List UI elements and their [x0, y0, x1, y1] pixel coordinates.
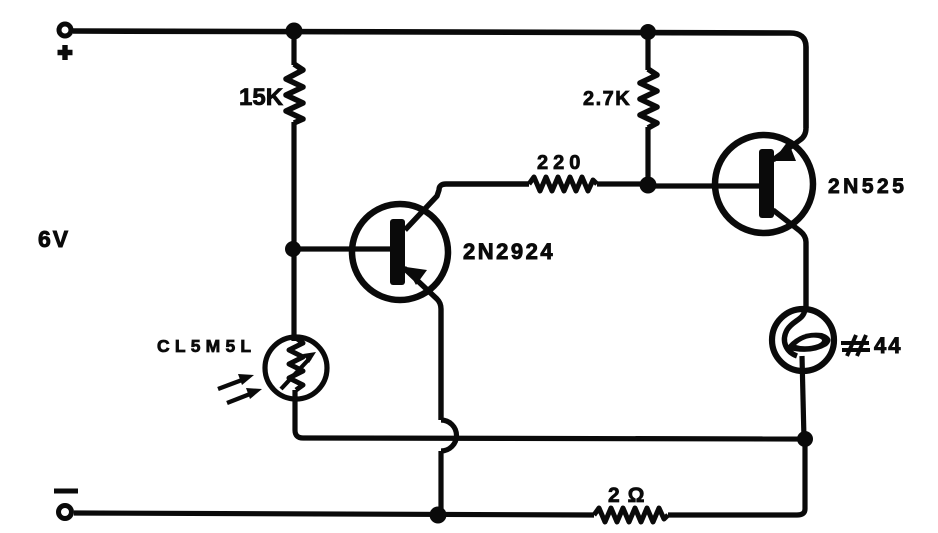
- svg-text:2Ω: 2Ω: [608, 484, 653, 507]
- svg-text:CL5M5L: CL5M5L: [157, 336, 256, 356]
- svg-text:2N2924: 2N2924: [463, 239, 555, 264]
- svg-text:15K: 15K: [239, 84, 284, 111]
- svg-text:2.7K: 2.7K: [583, 88, 631, 110]
- svg-text:6V: 6V: [38, 226, 70, 252]
- svg-text:2N525: 2N525: [828, 175, 907, 198]
- svg-text:220: 220: [537, 152, 585, 174]
- svg-text:44: 44: [874, 333, 902, 358]
